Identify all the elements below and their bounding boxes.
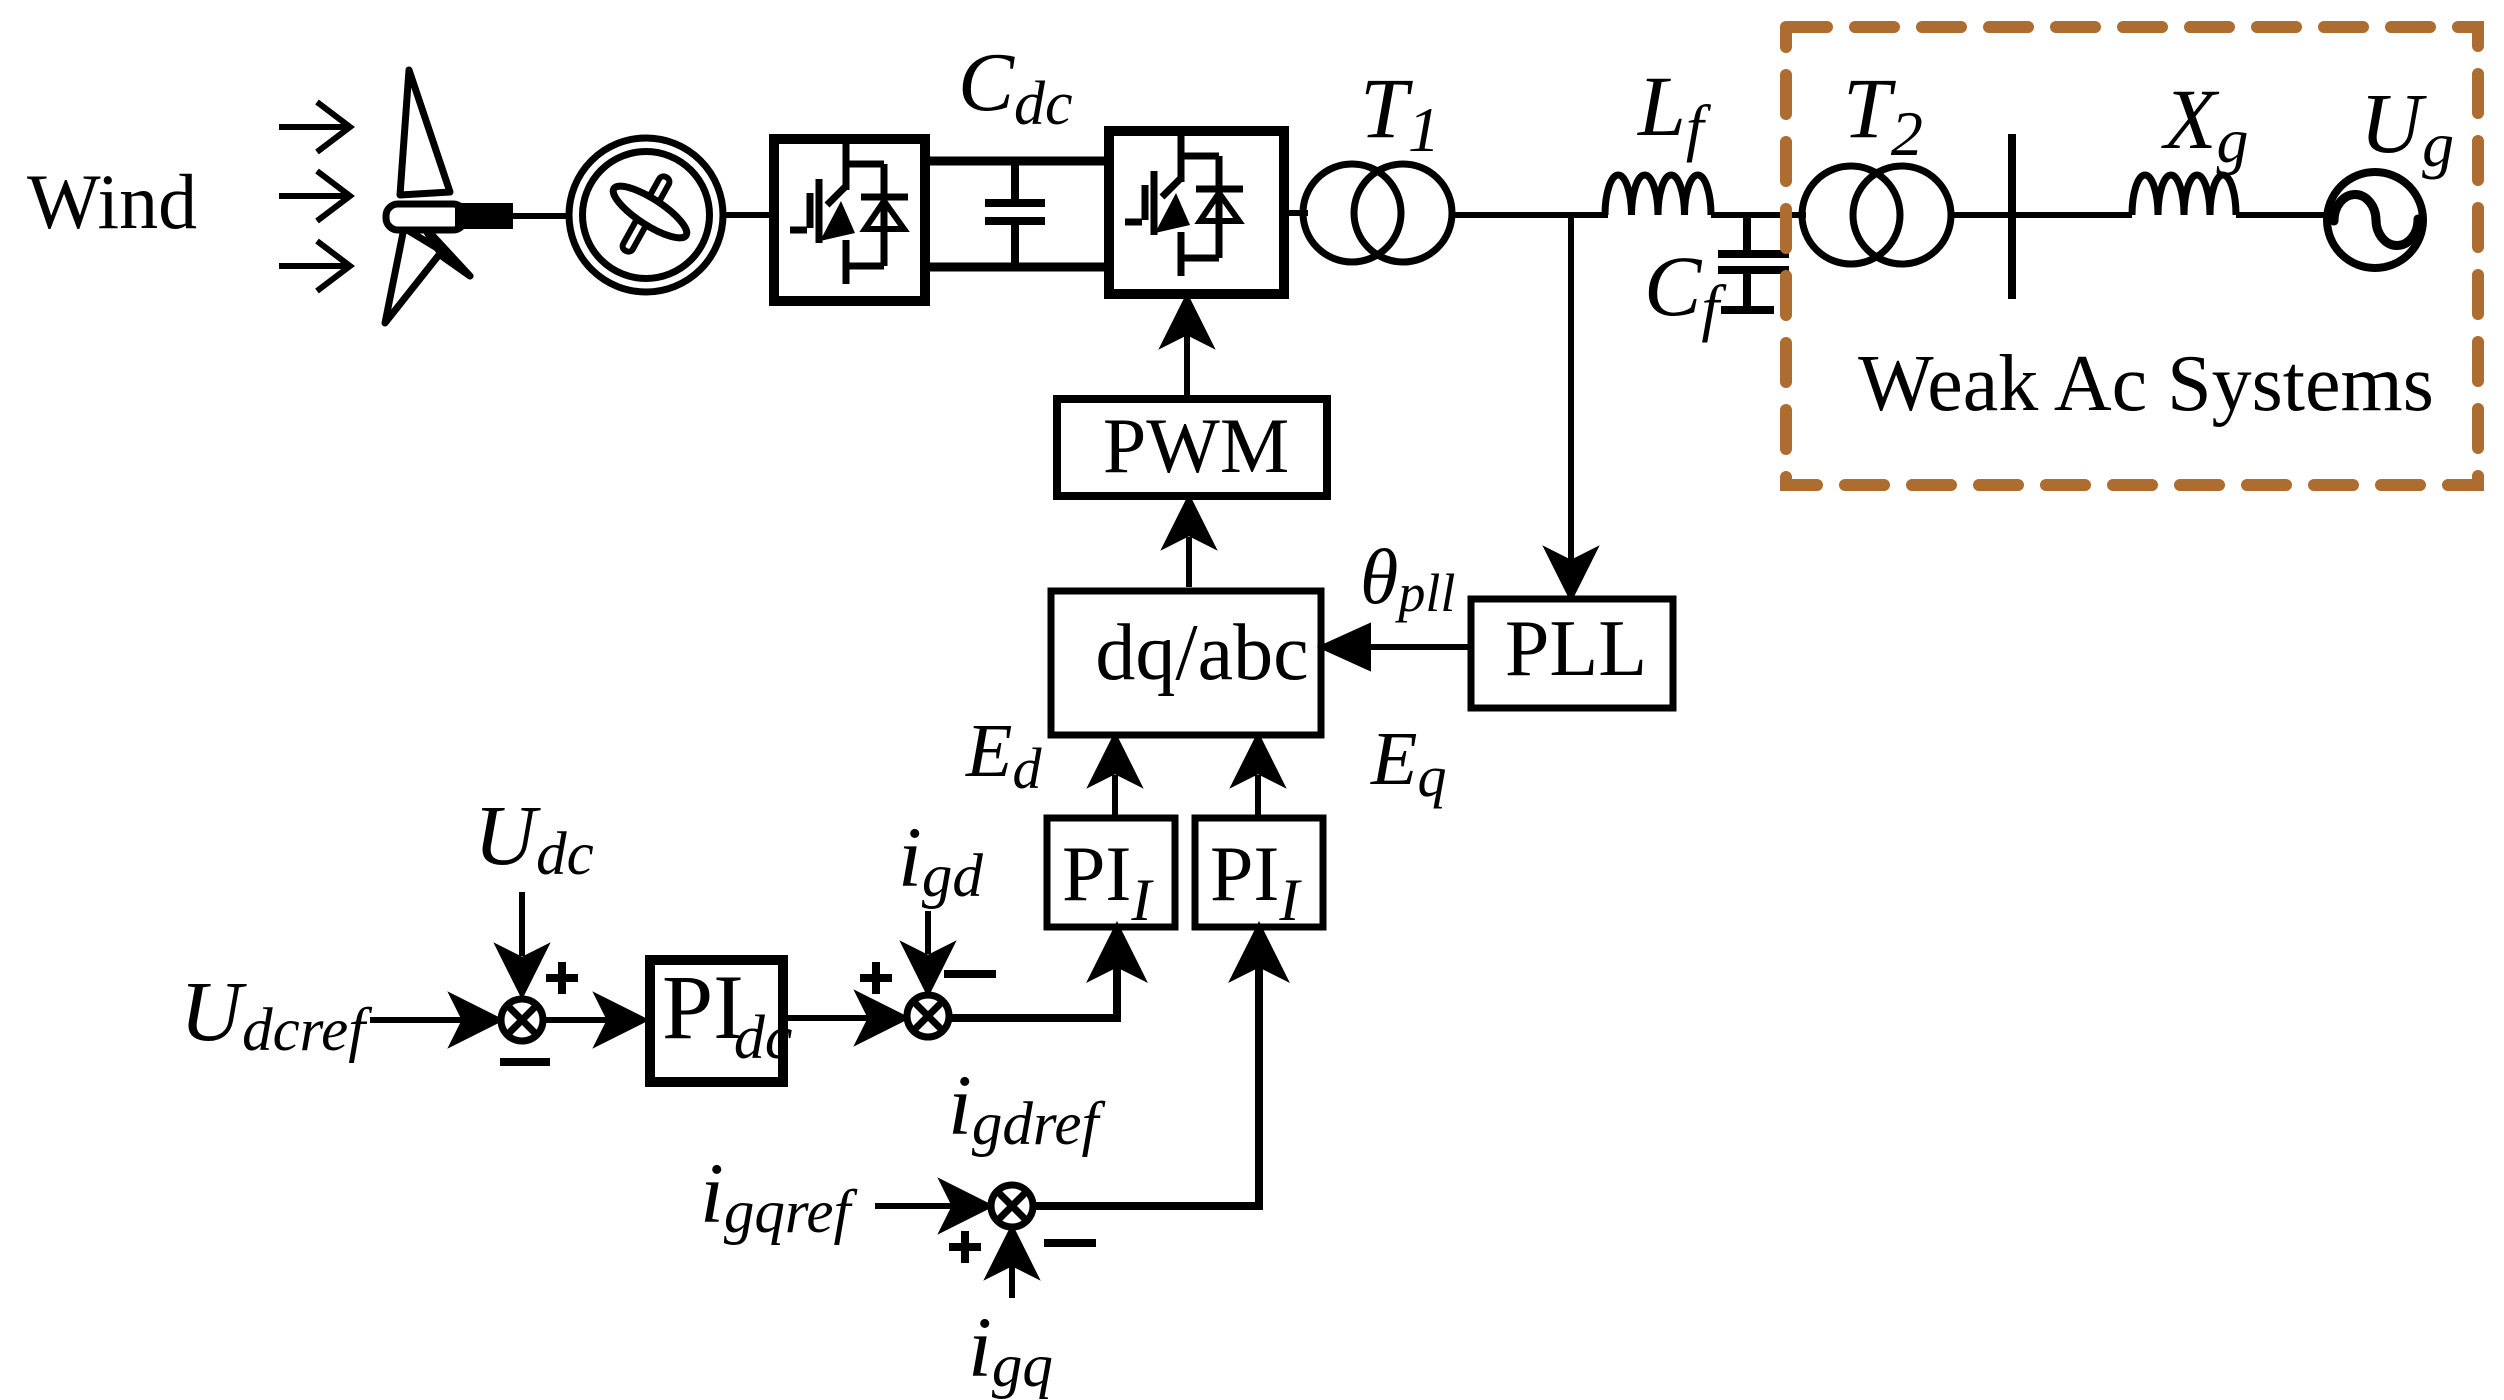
capacitor Cf to ground — [1718, 215, 1789, 310]
shaft wire — [513, 213, 570, 219]
arrow igd into summer S2 — [906, 911, 950, 991]
label theta_pll — [1360, 533, 1455, 623]
IGBT Q2 with antiparallel diode D2 — [1125, 136, 1243, 276]
minus sign S3 — [1044, 1239, 1096, 1247]
label igd — [898, 809, 983, 910]
wire S3 to PI2 — [1033, 930, 1281, 1206]
arrow Udc into summer S1 — [500, 892, 544, 993]
wind turbine — [385, 70, 470, 323]
plus sign S3 — [949, 1231, 981, 1263]
arrow igqref into summer S3 — [875, 1184, 988, 1228]
minus sign S1 — [500, 1058, 550, 1066]
label igq — [968, 1299, 1053, 1400]
inductor Lf — [1605, 175, 1711, 215]
label Wind — [27, 158, 197, 245]
capacitor Cdc — [985, 161, 1045, 267]
label igdref — [948, 1057, 1105, 1158]
label Udcref — [180, 963, 372, 1064]
IGBT Q1 with antiparallel diode D1 — [790, 144, 908, 284]
AC source Ug — [2327, 172, 2423, 268]
wind arrow 2 — [279, 171, 350, 221]
turbine shaft coupling — [455, 203, 513, 229]
transformer T1 — [1303, 164, 1452, 262]
arrow PIdc to summer S2 — [788, 996, 904, 1040]
arrow Udcref into summer S1 — [370, 998, 498, 1042]
label Cdc — [958, 36, 1073, 138]
arrow PI1 to dq/abc (Ed) — [1093, 738, 1137, 815]
arrow PI2 to dq/abc (Eq) — [1236, 738, 1280, 815]
arrow S1 to PIdc — [543, 998, 643, 1042]
plus sign S2 — [860, 962, 892, 994]
label T1 — [1360, 60, 1440, 165]
wire generator to MSC — [723, 212, 770, 218]
label Lf — [1636, 58, 1712, 163]
wire T1 to Lf with PCC node — [1452, 212, 1608, 218]
svg-text:PLL: PLL — [1505, 605, 1647, 693]
wire Lf to T2 — [1711, 212, 1806, 218]
generator G — [569, 138, 723, 292]
arrow dq/abc to PWM — [1167, 500, 1211, 587]
PI dc-voltage controller PIdc — [650, 956, 792, 1082]
summer S2 — [907, 995, 949, 1037]
label Eq — [1370, 717, 1446, 809]
generator rotor axle — [621, 175, 671, 254]
svg-text:dq/abc: dq/abc — [1095, 609, 1308, 697]
machine-side converter box — [774, 139, 925, 301]
label Ug — [2360, 75, 2454, 180]
DC link top rail — [925, 157, 1109, 166]
weak AC system dashed boundary box — [1786, 27, 2478, 485]
arrow igq into summer S3 — [990, 1230, 1034, 1298]
wind arrow 1 — [279, 102, 350, 152]
wire Xg to Ug — [2236, 212, 2330, 218]
PWM block — [1057, 399, 1327, 496]
wind arrow 3 — [279, 241, 350, 291]
label Cf — [1644, 238, 1727, 343]
PI current controller 1 — [1047, 818, 1175, 933]
svg-text:Wind: Wind — [27, 158, 197, 245]
dq/abc block — [1051, 591, 1321, 735]
plus sign S1 — [546, 962, 578, 994]
wire T2 to bus — [1951, 212, 2132, 218]
transformer T2 — [1802, 166, 1951, 264]
bus bar — [2008, 134, 2016, 299]
label igqref — [700, 1145, 857, 1246]
DC link bottom rail — [925, 263, 1109, 272]
label Xg — [2161, 71, 2249, 176]
svg-text:Weak Ac Systems: Weak Ac Systems — [1858, 340, 2434, 428]
wire S2 to PI1 — [949, 930, 1139, 1018]
grid-side converter box — [1109, 131, 1284, 294]
label Udc — [474, 787, 594, 888]
PI current controller 2 — [1195, 818, 1323, 933]
summer S1 — [501, 999, 543, 1041]
minus sign S2 — [944, 970, 996, 978]
PLL block — [1471, 599, 1673, 708]
arrow PLL to dq/abc — [1324, 627, 1468, 667]
wire PCC node down to PLL — [1549, 215, 1593, 596]
label Ed — [965, 709, 1042, 801]
svg-text:PWM: PWM — [1103, 402, 1289, 489]
label T2 — [1843, 60, 1923, 169]
label Weak Ac Systems — [1858, 340, 2434, 428]
inductor Xg — [2132, 175, 2236, 215]
generator rotor disk — [607, 178, 693, 247]
arrow PWM to GSC — [1165, 299, 1209, 395]
summer S3 — [991, 1185, 1033, 1227]
wire GSC to T1 — [1284, 210, 1308, 216]
